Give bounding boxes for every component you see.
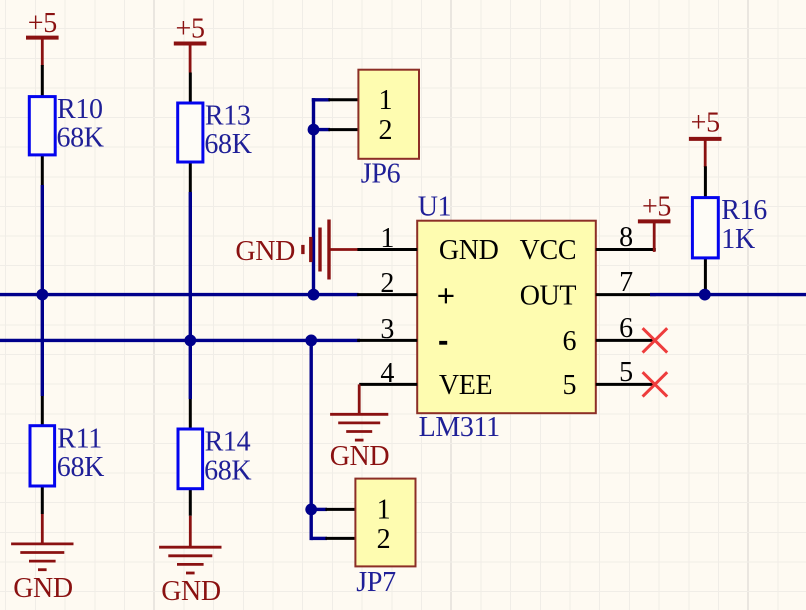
svg-text:4: 4 xyxy=(380,358,394,389)
svg-text:JP6: JP6 xyxy=(361,158,401,189)
ground (U1 pin 4) xyxy=(330,384,388,440)
svg-text:GND: GND xyxy=(161,576,221,607)
svg-text:R11: R11 xyxy=(57,423,102,454)
no-connect X (pin 6) xyxy=(643,328,668,352)
pin 1 (JP6) xyxy=(378,85,392,116)
svg-text:68K: 68K xyxy=(204,129,251,160)
pin 3 - xyxy=(357,314,447,345)
power +5 (net of R10) xyxy=(26,8,59,66)
pin 1 GND xyxy=(357,223,498,266)
wire JP7 drop xyxy=(310,340,313,540)
svg-text:2: 2 xyxy=(377,524,391,555)
pin 2 + xyxy=(357,268,453,303)
svg-text:LM311: LM311 xyxy=(419,412,500,443)
junction col2 / wire B xyxy=(184,335,196,347)
svg-text:+5: +5 xyxy=(176,13,205,44)
pin 6 xyxy=(563,313,656,357)
label R13 xyxy=(205,100,251,131)
wire OUT net xyxy=(650,293,806,296)
label GND (U1 pin 4) xyxy=(330,441,390,472)
svg-text:R10: R10 xyxy=(57,94,103,125)
resistor R16 xyxy=(692,166,718,294)
svg-text:7: 7 xyxy=(619,267,633,298)
junction wire B / JP7 drop xyxy=(305,335,317,347)
svg-text:1: 1 xyxy=(380,223,394,254)
svg-text:GND: GND xyxy=(235,236,295,267)
svg-text:R16: R16 xyxy=(721,195,767,226)
pin 2 (JP7) xyxy=(377,524,391,555)
label R16 xyxy=(721,195,767,226)
label JP7 xyxy=(356,567,396,598)
resistor R14 xyxy=(178,399,203,516)
wire JP6 drop xyxy=(312,98,330,295)
label R11 xyxy=(57,423,102,454)
ground (U1 pin 1, rotated) xyxy=(303,220,358,280)
pin 5 xyxy=(563,357,656,401)
svg-text:R14: R14 xyxy=(205,427,251,458)
svg-text:3: 3 xyxy=(380,314,394,345)
svg-text:68K: 68K xyxy=(204,455,251,486)
svg-text:U1: U1 xyxy=(418,192,452,223)
svg-text:VCC: VCC xyxy=(520,235,577,266)
no-connect X (pin 5) xyxy=(643,372,668,396)
svg-text:5: 5 xyxy=(563,370,577,401)
svg-text:1K: 1K xyxy=(721,224,755,255)
wire col2 vertical xyxy=(189,192,192,399)
svg-text:VEE: VEE xyxy=(439,370,492,401)
power +5 (net of R16) xyxy=(689,108,722,168)
svg-text:1: 1 xyxy=(377,495,391,526)
junction wire A / JP6 drop xyxy=(308,289,320,301)
svg-text:6: 6 xyxy=(619,313,633,344)
label 68K (R13) xyxy=(204,129,251,160)
svg-text:68K: 68K xyxy=(57,452,104,483)
ground (below R11) xyxy=(11,514,73,570)
svg-text:R13: R13 xyxy=(205,100,251,131)
ground (below R14) xyxy=(159,516,221,573)
wire col1 vertical xyxy=(41,185,44,396)
svg-text:1: 1 xyxy=(378,85,392,116)
svg-text:68K: 68K xyxy=(57,123,104,154)
svg-text:2: 2 xyxy=(380,268,394,299)
pin 7 OUT xyxy=(520,267,656,311)
label 68K (R11) xyxy=(57,452,104,483)
pin 8 VCC xyxy=(520,222,656,266)
svg-text:GND: GND xyxy=(439,235,499,266)
wire A (to U1 pin 2, + input) xyxy=(0,293,359,296)
wire B (to U1 pin 3, - input) xyxy=(0,339,360,342)
label 1K (R16) xyxy=(721,224,755,255)
label JP6 xyxy=(361,158,401,189)
junction JP6 pin2 xyxy=(308,124,320,136)
label LM311 xyxy=(419,412,500,443)
svg-text:GND: GND xyxy=(330,441,390,472)
svg-text:6: 6 xyxy=(563,326,577,357)
pin 4 VEE xyxy=(359,358,492,401)
svg-text:5: 5 xyxy=(619,357,633,388)
junction OUT / R16 xyxy=(699,289,711,301)
resistor R11 xyxy=(30,396,55,514)
label GND (U1 pin 1) xyxy=(235,236,295,267)
resistor R10 xyxy=(29,65,55,185)
connector JP6 xyxy=(314,70,420,159)
svg-text:+5: +5 xyxy=(691,108,720,139)
power +5 (U1 pin 8) xyxy=(638,192,671,252)
svg-text:2: 2 xyxy=(378,115,392,146)
svg-text:+5: +5 xyxy=(642,192,671,223)
svg-text:OUT: OUT xyxy=(520,280,577,311)
label GND (below R14) xyxy=(161,576,221,607)
resistor R13 xyxy=(178,73,203,193)
svg-text:8: 8 xyxy=(619,222,633,253)
label 68K (R14) xyxy=(204,455,251,486)
label R14 xyxy=(205,427,251,458)
power +5 (net of R13) xyxy=(174,13,207,72)
svg-text:+5: +5 xyxy=(28,8,57,39)
connector JP7 xyxy=(311,479,415,567)
junction JP7 pin1 xyxy=(305,504,317,516)
label 68K (R10) xyxy=(57,123,104,154)
pin 1 (JP7) xyxy=(377,495,391,526)
junction col1 / wire A xyxy=(36,289,48,301)
svg-text:JP7: JP7 xyxy=(356,567,396,598)
svg-text:GND: GND xyxy=(13,573,73,604)
label GND (below R11) xyxy=(13,573,73,604)
label R10 xyxy=(57,94,103,125)
pin 2 (JP6) xyxy=(378,115,392,146)
label U1 xyxy=(418,192,452,223)
comparator U1 body xyxy=(417,221,596,414)
